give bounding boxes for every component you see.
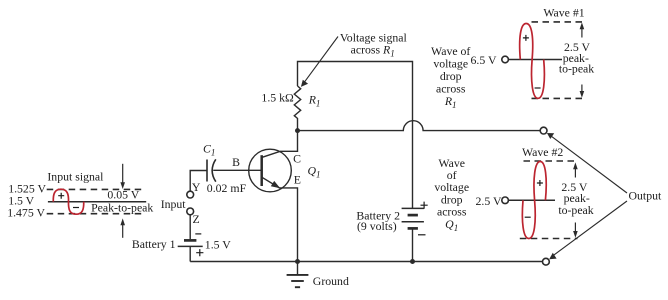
svg-text:C: C	[293, 152, 301, 166]
svg-text:Peak-to-peak: Peak-to-peak	[91, 201, 153, 215]
svg-text:to-peak: to-peak	[559, 62, 594, 76]
svg-text:0.02 mF: 0.02 mF	[207, 181, 247, 195]
svg-text:1.5 kΩ: 1.5 kΩ	[261, 91, 294, 105]
svg-text:Input: Input	[161, 197, 187, 211]
svg-text:to-peak: to-peak	[558, 203, 593, 217]
svg-text:R1: R1	[444, 94, 457, 110]
svg-text:Input signal: Input signal	[47, 169, 104, 183]
svg-text:2.5 V: 2.5 V	[475, 194, 501, 208]
svg-text:1.5 V: 1.5 V	[205, 237, 231, 251]
svg-text:(9 volts): (9 volts)	[357, 219, 397, 233]
svg-text:Q1: Q1	[445, 217, 458, 233]
svg-text:6.5 V: 6.5 V	[470, 53, 496, 67]
svg-text:across R1: across R1	[351, 43, 395, 59]
svg-text:1.475 V: 1.475 V	[7, 206, 45, 220]
svg-text:Y: Y	[192, 180, 201, 194]
svg-text:Z: Z	[193, 212, 200, 226]
svg-text:Ground: Ground	[313, 274, 349, 288]
svg-text:R1: R1	[308, 92, 321, 108]
svg-text:Output: Output	[629, 189, 662, 203]
svg-text:Q1: Q1	[308, 163, 321, 179]
svg-text:B: B	[232, 155, 240, 169]
svg-text:Wave #2: Wave #2	[522, 145, 563, 159]
svg-text:E: E	[294, 172, 301, 186]
svg-text:0.05 V: 0.05 V	[107, 188, 139, 202]
svg-text:Battery 1: Battery 1	[132, 237, 176, 251]
svg-text:Wave #1: Wave #1	[543, 6, 584, 20]
svg-text:C1: C1	[203, 141, 215, 157]
